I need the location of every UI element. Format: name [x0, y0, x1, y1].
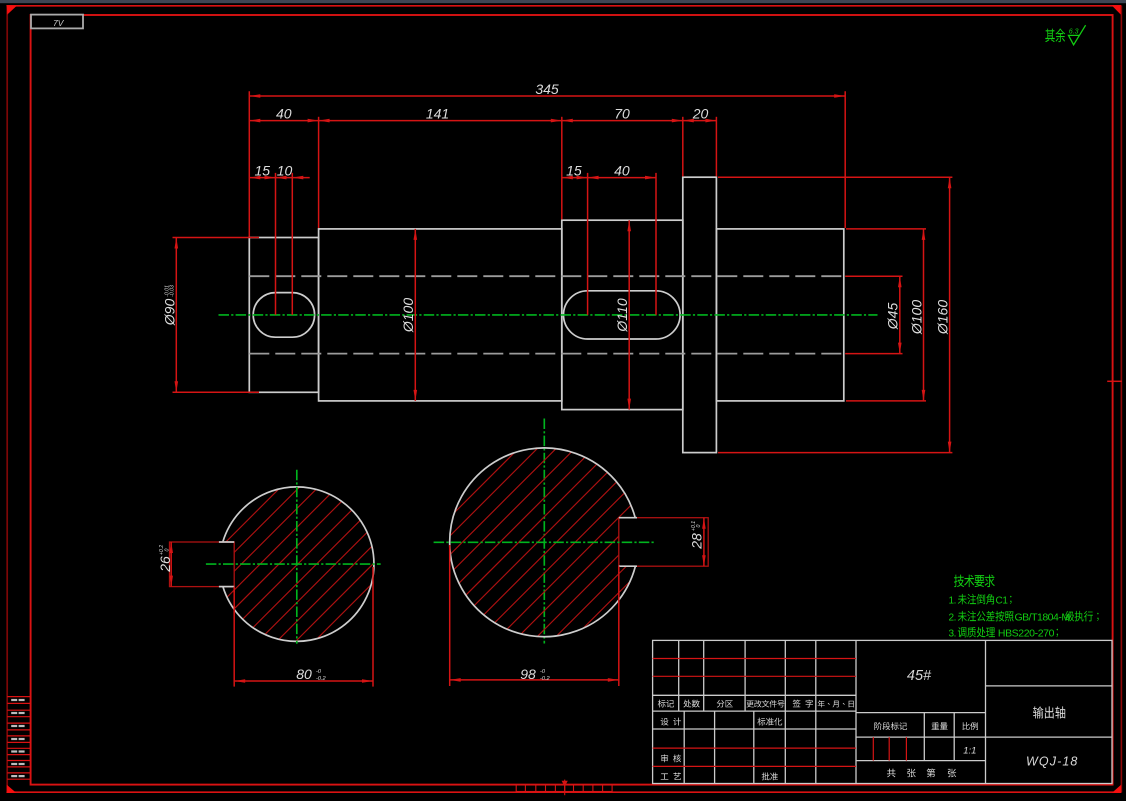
extension line step Ø90/Ø100 [318, 117, 320, 228]
right centering mark [1107, 380, 1122, 382]
svg-text:-0.2: -0.2 [540, 676, 551, 682]
svg-text:7V: 7V [53, 18, 65, 28]
svg-text:20: 20 [692, 105, 709, 121]
corner mark top-left [7, 5, 17, 14]
keyway slot right (top view) [564, 291, 681, 339]
svg-text:Ø160: Ø160 [935, 300, 951, 335]
dimension Ø90 [162, 238, 260, 393]
svg-text:80: 80 [296, 666, 312, 682]
section B link centerline [543, 419, 545, 644]
left margin column [7, 697, 30, 780]
svg-text:Ø110: Ø110 [614, 298, 630, 332]
svg-text:28: 28 [689, 533, 705, 550]
dimension 40 right keyway [588, 162, 656, 179]
viewport label box [31, 15, 83, 29]
section A centerline vertical [296, 470, 298, 644]
svg-text:40: 40 [614, 162, 630, 178]
dimension 345 [249, 81, 845, 98]
section B keyway notch edges [619, 518, 637, 567]
svg-text:Ø100: Ø100 [400, 298, 416, 333]
hidden bore line upper [249, 275, 844, 277]
title label 工艺 [661, 772, 681, 780]
hidden bore line lower [249, 353, 844, 355]
svg-text:Ø45: Ø45 [885, 303, 901, 331]
title block grid [653, 640, 1112, 783]
svg-text:Ø100: Ø100 [908, 300, 924, 335]
title scale 1:1 [963, 746, 976, 757]
section A hatching [89, 460, 515, 660]
svg-text:Ø90: Ø90 [162, 299, 178, 327]
svg-text:WQJ-18: WQJ-18 [1026, 754, 1078, 768]
title label 年月日 [818, 700, 854, 707]
window top strip [0, 0, 1126, 3]
shaft section Ø110 [562, 220, 683, 409]
part name 输出轴 [1033, 706, 1065, 718]
material 45# [907, 668, 932, 684]
extension line flange right [715, 117, 717, 177]
svg-text:6.3: 6.3 [1069, 28, 1079, 35]
svg-text:-0: -0 [316, 669, 322, 675]
extension line step Ø100/Ø110 [561, 117, 563, 220]
title label 标记 [658, 700, 674, 708]
technical requirement 1 [949, 594, 1012, 607]
surface roughness note [1045, 25, 1085, 45]
title label 标准化 [757, 718, 782, 726]
svg-text:40: 40 [276, 105, 292, 121]
svg-text:3.: 3. [949, 629, 957, 640]
extension line right keyway 15 [587, 173, 589, 315]
svg-text:141: 141 [426, 105, 449, 121]
dimension Ø160 [718, 177, 952, 452]
title label 设计 [661, 718, 681, 726]
title label 签字 [793, 700, 813, 708]
title label 阶段标记 [874, 722, 907, 730]
title label 更改文件号 [747, 700, 785, 708]
dimension Ø100 right [846, 229, 926, 401]
shaft centerline [219, 314, 878, 316]
svg-text:-0.03: -0.03 [170, 285, 176, 297]
dimension 141 [319, 105, 562, 122]
corner mark bottom-left [7, 785, 17, 793]
title label 处数 [683, 700, 699, 708]
technical requirement 2 [949, 611, 1099, 624]
shaft section Ø100 left [319, 229, 562, 401]
dimension 20 [683, 105, 717, 122]
svg-text:0: 0 [696, 524, 702, 527]
svg-text:10: 10 [277, 162, 293, 178]
dimension 10 left keyway [276, 162, 310, 179]
section A centerline horizontal [206, 563, 381, 565]
svg-text:345: 345 [535, 81, 559, 97]
title label 分区 [717, 700, 733, 708]
section A keyway notch edges [219, 542, 234, 587]
section A keyway profile (red) [170, 542, 235, 587]
section B centerline horizontal [434, 541, 655, 543]
svg-text:C1: C1 [996, 596, 1009, 607]
extension line left keyway 15 [275, 173, 277, 315]
svg-text:-0: -0 [540, 669, 546, 675]
corner mark top-right [1112, 5, 1121, 14]
shaft section Ø100 right [716, 229, 843, 401]
extension line left keyway 10 [291, 173, 293, 315]
keyway slot left (top view) [253, 293, 314, 338]
dimension 70 [562, 105, 683, 122]
dimension Ø45 [845, 276, 902, 353]
dimension Ø100 middle [400, 229, 417, 401]
svg-text:26: 26 [157, 556, 173, 573]
section A outline [223, 487, 374, 641]
dimension Ø110 [614, 220, 631, 409]
corner mark bottom-right [1112, 785, 1121, 793]
svg-text:-0.2: -0.2 [316, 676, 327, 682]
bottom centering mark [516, 780, 612, 796]
dimension 15 right keyway [562, 162, 588, 179]
dimension 26 keyway width [157, 542, 173, 587]
svg-text:1:1: 1:1 [963, 746, 976, 757]
svg-text:0: 0 [164, 548, 170, 551]
extension line shaft left end [248, 91, 250, 236]
technical requirement 3 [949, 627, 1059, 640]
svg-text:HBS220-270: HBS220-270 [998, 628, 1055, 640]
dimension 40 [249, 105, 318, 122]
dimension 28 keyway width [689, 518, 706, 567]
extension line flange left [682, 117, 684, 177]
dimension 98 section B [450, 545, 619, 686]
title label 批准 [762, 772, 778, 780]
title label 共张第张 [887, 768, 956, 777]
dimension 15 left keyway [249, 162, 275, 179]
svg-text:1.: 1. [949, 596, 957, 607]
title label 审核 [661, 754, 681, 762]
svg-text:15: 15 [566, 162, 582, 178]
svg-text:45#: 45# [907, 668, 932, 684]
extension line right keyway 40 [655, 173, 657, 315]
svg-text:98: 98 [520, 666, 536, 682]
title label 重量 [932, 722, 948, 730]
section B hatching [288, 420, 810, 660]
dimension 80 section A [234, 567, 373, 687]
section B outline [450, 448, 636, 637]
svg-text:GB/T1804-M: GB/T1804-M [1015, 612, 1070, 624]
shaft section Ø90 [249, 238, 318, 393]
shaft flange Ø160 [683, 177, 717, 452]
extension line shaft right end [844, 91, 846, 228]
svg-text:15: 15 [255, 162, 271, 178]
title label 比例 [962, 722, 978, 730]
svg-text:2.: 2. [949, 613, 957, 624]
section B keyway profile (red) [619, 518, 708, 567]
technical requirements title [954, 575, 995, 588]
drawing number WQJ-18 [1026, 754, 1078, 768]
svg-text:70: 70 [614, 105, 630, 121]
